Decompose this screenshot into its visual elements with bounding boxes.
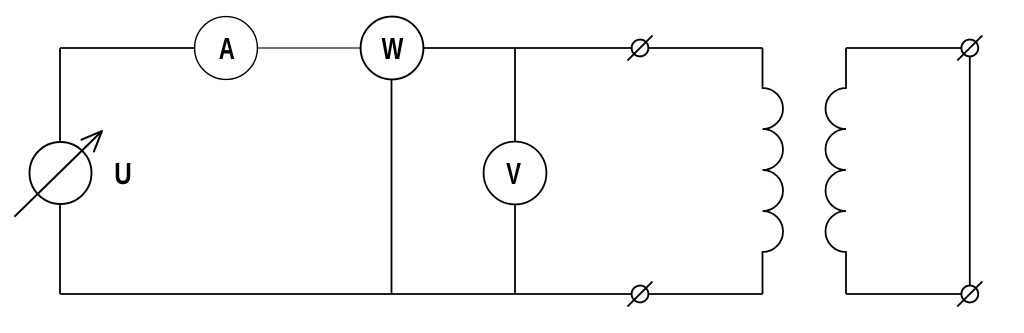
svg-text:A: A: [219, 32, 235, 66]
wire left vertical (through source U): [59, 48, 61, 294]
terminal secondary bottom: [957, 282, 982, 307]
label W: [382, 31, 404, 66]
wire bottom horizontal: [60, 293, 763, 295]
ammeter A circle: [195, 17, 258, 80]
wire top-left horizontal (source to ammeter): [60, 47, 200, 49]
wire secondary right vertical: [969, 48, 971, 294]
svg-text:V: V: [506, 157, 521, 191]
voltmeter V circle: [484, 142, 547, 205]
label A: [219, 32, 235, 66]
source U arrow: [14, 131, 102, 217]
wire voltmeter branch: [514, 48, 516, 294]
wattmeter W circle: [361, 17, 424, 80]
svg-text:W: W: [382, 31, 404, 66]
source U circle: [30, 142, 92, 204]
wire wattmeter stub down: [391, 79, 393, 294]
inductor L1 primary winding: [763, 48, 784, 294]
terminal primary top: [628, 36, 653, 61]
wire wattmeter to primary top (through terminal): [421, 47, 763, 49]
terminal primary bottom: [628, 282, 653, 307]
wire ammeter to wattmeter (thin): [256, 47, 363, 49]
terminal secondary top: [957, 36, 982, 61]
label V: [506, 157, 521, 191]
wire secondary bottom: [846, 293, 970, 295]
inductor L2 secondary winding: [826, 48, 847, 294]
svg-text:U: U: [114, 156, 131, 191]
wire secondary top: [846, 47, 970, 49]
label U: [114, 156, 131, 191]
